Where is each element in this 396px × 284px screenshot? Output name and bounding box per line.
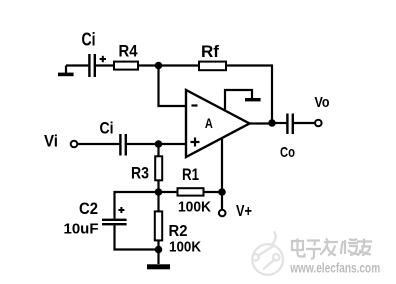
子 bbox=[306, 241, 321, 259]
svg-text:Co: Co bbox=[280, 144, 295, 161]
node junction D (R2/C2 ground node) bbox=[155, 246, 163, 254]
wire bbox=[115, 225, 159, 249]
svg-text:Vo: Vo bbox=[315, 94, 330, 111]
resistor Rf bbox=[199, 62, 226, 71]
svg-text:R1: R1 bbox=[182, 166, 199, 184]
wire bbox=[96, 64, 114, 66]
wire bbox=[159, 143, 187, 145]
svg-text:Ci: Ci bbox=[100, 119, 114, 138]
wire bbox=[127, 143, 159, 145]
capacitor Ci (input) bbox=[119, 134, 127, 156]
电 bbox=[292, 239, 305, 257]
wire bbox=[115, 192, 159, 219]
svg-text:C2: C2 bbox=[79, 200, 98, 218]
resistor R1 bbox=[178, 188, 204, 195]
terminal Vo bbox=[315, 120, 322, 127]
node output junction bbox=[268, 119, 276, 127]
capacitor Ci (top) bbox=[88, 54, 106, 77]
wire bbox=[157, 196, 159, 212]
svg-text:100K: 100K bbox=[178, 200, 211, 216]
capacitor C2 bbox=[102, 207, 127, 225]
wire bbox=[157, 180, 159, 192]
wire bbox=[159, 64, 200, 66]
node junction C (R3/R1/R2/C2 bias node) bbox=[155, 188, 163, 196]
op-amp A bbox=[186, 90, 250, 157]
烧 bbox=[341, 239, 358, 255]
node junction E (R1/V+ supply) bbox=[218, 188, 226, 196]
wire (op-amp supply pin) bbox=[221, 139, 223, 193]
wire bbox=[159, 66, 187, 107]
op-amp A non-inverting pin marker bbox=[191, 138, 200, 147]
svg-text:R3: R3 bbox=[131, 165, 149, 183]
wire bbox=[226, 66, 272, 124]
svg-text:R4: R4 bbox=[119, 42, 138, 61]
wire bbox=[66, 64, 88, 66]
wire bbox=[221, 192, 223, 210]
watermark text 电子发烧友 (drawn strokes) bbox=[292, 239, 372, 259]
wire bbox=[157, 147, 159, 157]
ground (op-amp reference) bbox=[225, 90, 261, 110]
svg-text:www.elecfans.com: www.elecfans.com bbox=[289, 260, 380, 275]
watermark logo bbox=[252, 232, 283, 275]
wire bbox=[294, 122, 315, 124]
op-amp A inverting pin marker bbox=[192, 104, 198, 106]
resistor R2 bbox=[155, 211, 162, 240]
node junction A (R4/Rf/inverting input) bbox=[155, 62, 163, 70]
svg-text:Rf: Rf bbox=[201, 42, 219, 61]
node junction B (Ci/R3/non-inverting input) bbox=[155, 140, 163, 148]
wire bbox=[77, 143, 119, 145]
svg-text:R2: R2 bbox=[169, 223, 188, 240]
wire bbox=[249, 122, 272, 124]
wire bbox=[157, 240, 159, 249]
svg-text:100K: 100K bbox=[169, 240, 201, 256]
友 bbox=[357, 239, 372, 256]
ground (input AC ground) bbox=[58, 66, 74, 77]
resistor R4 bbox=[114, 62, 138, 70]
发 bbox=[320, 239, 338, 256]
wire bbox=[138, 64, 159, 66]
capacitor Co bbox=[286, 114, 294, 135]
svg-text:Ci: Ci bbox=[82, 30, 96, 50]
ground (bias divider) bbox=[147, 250, 170, 270]
wire bbox=[204, 191, 223, 193]
terminal Vi bbox=[71, 141, 78, 148]
wire bbox=[159, 191, 178, 193]
resistor R3 bbox=[155, 156, 162, 180]
terminal V+ bbox=[219, 210, 226, 217]
svg-text:Vi: Vi bbox=[44, 132, 58, 151]
wire bbox=[272, 122, 286, 124]
svg-text:A: A bbox=[205, 115, 213, 131]
svg-text:10uF: 10uF bbox=[64, 221, 99, 238]
svg-text:V+: V+ bbox=[236, 203, 252, 220]
